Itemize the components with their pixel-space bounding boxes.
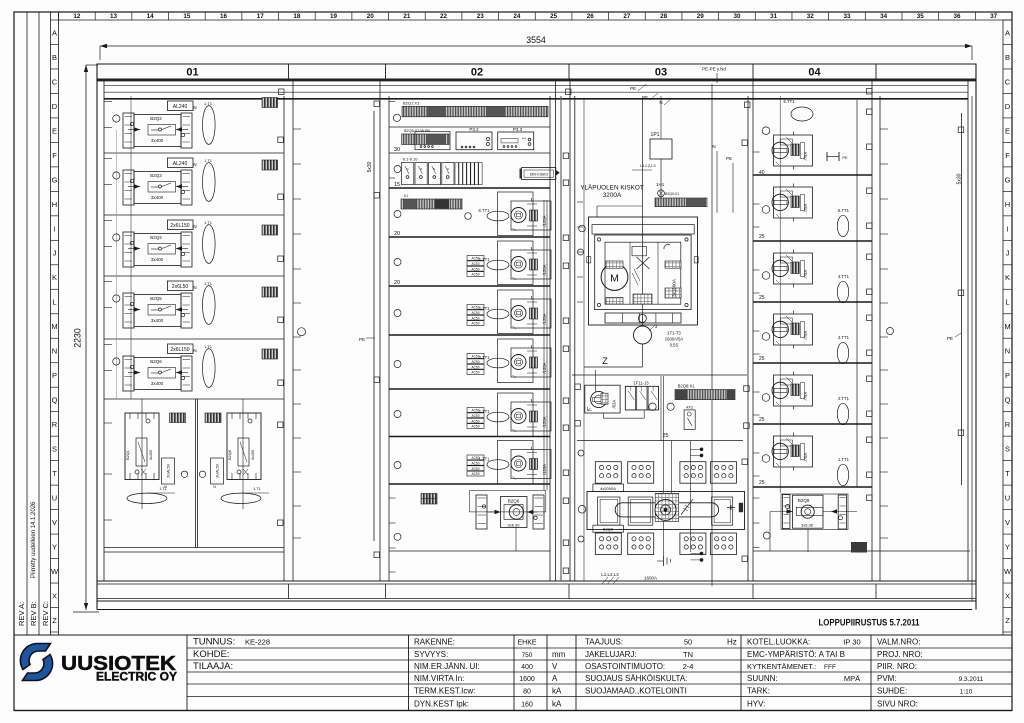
svg-text:3554: 3554 xyxy=(526,35,546,45)
svg-text:1.TT1: 1.TT1 xyxy=(479,457,491,462)
svg-text:DYN.KEST Ipk:: DYN.KEST Ipk: xyxy=(414,700,469,709)
svg-text:04: 04 xyxy=(808,67,821,79)
svg-text:PE: PE xyxy=(642,95,648,100)
svg-text:TN: TN xyxy=(683,650,693,659)
svg-text:37: 37 xyxy=(990,13,998,20)
svg-text:4x2000A: 4x2000A xyxy=(600,486,616,491)
svg-text:6.1-6.10: 6.1-6.10 xyxy=(403,157,418,162)
svg-text:B2Q2: B2Q2 xyxy=(150,116,162,121)
svg-text:1H1: 1H1 xyxy=(656,182,665,187)
svg-text:34: 34 xyxy=(880,13,888,20)
svg-text:N: N xyxy=(1005,347,1010,356)
svg-text:K1: K1 xyxy=(404,194,408,198)
svg-text:31: 31 xyxy=(770,13,778,20)
svg-text:E: E xyxy=(1005,126,1010,135)
svg-text:B2Q9: B2Q9 xyxy=(798,498,810,503)
svg-text:B2Q8:X1: B2Q8:X1 xyxy=(678,384,696,389)
svg-text:3x400: 3x400 xyxy=(151,318,164,323)
svg-text:P3.2: P3.2 xyxy=(469,127,479,132)
svg-text:V: V xyxy=(52,518,57,527)
svg-text:mm: mm xyxy=(552,650,566,659)
svg-text:EMC-YMPÄRISTÖ: A TAI B: EMC-YMPÄRISTÖ: A TAI B xyxy=(747,650,845,659)
svg-text:TILAAJA:: TILAAJA: xyxy=(193,661,233,672)
svg-text:I: I xyxy=(1006,224,1008,233)
svg-text:AL240: AL240 xyxy=(173,104,188,110)
svg-text:27: 27 xyxy=(623,13,631,20)
svg-text:Y: Y xyxy=(52,543,57,552)
svg-text:H: H xyxy=(1005,200,1010,209)
svg-text:AC50: AC50 xyxy=(472,316,480,320)
svg-text:25: 25 xyxy=(759,234,765,240)
svg-text:G: G xyxy=(1005,175,1011,184)
svg-text:L1,L2,L3: L1,L2,L3 xyxy=(601,572,619,577)
svg-text:SUUNN:: SUUNN: xyxy=(747,674,778,683)
svg-text:6.TT1: 6.TT1 xyxy=(784,99,796,104)
svg-text:HYV:: HYV: xyxy=(747,700,765,709)
svg-text:TARK:: TARK: xyxy=(747,686,770,695)
svg-text:1:10: 1:10 xyxy=(960,688,973,695)
svg-text:B2Q6: B2Q6 xyxy=(150,359,162,364)
svg-text:P3.3: P3.3 xyxy=(513,127,523,132)
svg-text:25: 25 xyxy=(759,295,765,301)
svg-text:C: C xyxy=(1005,77,1011,86)
svg-text:2-4: 2-4 xyxy=(683,662,694,671)
svg-text:12: 12 xyxy=(73,13,81,20)
svg-text:P: P xyxy=(52,371,57,380)
svg-text:22: 22 xyxy=(440,13,448,20)
svg-text:AC50: AC50 xyxy=(472,311,480,315)
svg-text:400: 400 xyxy=(521,664,533,671)
svg-text:A: A xyxy=(552,674,558,683)
svg-text:SIVU NRO:: SIVU NRO: xyxy=(877,700,918,709)
svg-text:1F11-13: 1F11-13 xyxy=(633,381,649,386)
svg-text:23: 23 xyxy=(477,13,485,20)
svg-text:3x400: 3x400 xyxy=(251,450,255,460)
svg-text:A: A xyxy=(1005,28,1010,37)
svg-text:24: 24 xyxy=(513,13,521,20)
svg-text:B2Q8: B2Q8 xyxy=(603,527,614,532)
svg-text:PE: PE xyxy=(726,156,732,161)
svg-text:TERM.KEST.Icw:: TERM.KEST.Icw: xyxy=(414,686,475,695)
svg-text:V: V xyxy=(1005,518,1010,527)
svg-text:I: I xyxy=(53,224,55,233)
svg-text:JAKELUJARJ:: JAKELUJARJ: xyxy=(585,650,637,659)
svg-text:PE: PE xyxy=(630,86,636,91)
svg-text:Piirretty uudelleen 14.1.2026: Piirretty uudelleen 14.1.2026 xyxy=(31,501,37,578)
svg-text:N: N xyxy=(193,224,196,229)
svg-text:4.TT1: 4.TT1 xyxy=(479,306,491,311)
svg-text:/125A: /125A xyxy=(542,362,547,373)
svg-text:3x400: 3x400 xyxy=(151,138,164,143)
svg-text:AC50: AC50 xyxy=(472,472,480,476)
svg-text:E: E xyxy=(52,126,57,135)
svg-text:FFF: FFF xyxy=(824,664,836,671)
svg-text:Z: Z xyxy=(1005,616,1010,625)
svg-text:3x1600A: 3x1600A xyxy=(672,279,677,297)
svg-text:/75A: /75A xyxy=(803,330,808,339)
svg-text:1.T1: 1.T1 xyxy=(204,220,213,225)
svg-text:2x6L150: 2x6L150 xyxy=(170,347,189,353)
svg-text:P: P xyxy=(1005,371,1010,380)
svg-text:2x6L150: 2x6L150 xyxy=(170,223,189,229)
svg-text:AL240: AL240 xyxy=(173,161,188,167)
svg-text:33: 33 xyxy=(843,13,851,20)
svg-text:C: C xyxy=(52,77,58,86)
svg-text:N: N xyxy=(52,347,57,356)
svg-text:/63A: /63A xyxy=(612,399,617,408)
svg-text:S: S xyxy=(1005,445,1010,454)
svg-text:2.TT1: 2.TT1 xyxy=(838,396,850,401)
svg-text:N: N xyxy=(193,105,196,110)
svg-text:4X1: 4X1 xyxy=(686,405,694,410)
svg-text:L: L xyxy=(1005,298,1009,307)
svg-text:PIIR. NRO:: PIIR. NRO: xyxy=(877,662,917,671)
svg-text:N: N xyxy=(712,144,715,149)
svg-text:40: 40 xyxy=(759,170,765,176)
svg-text:750: 750 xyxy=(522,652,533,659)
svg-text:16: 16 xyxy=(220,13,228,20)
svg-text:13: 13 xyxy=(110,13,118,20)
svg-text:kA: kA xyxy=(552,686,562,695)
svg-text:B2Q5: B2Q5 xyxy=(150,296,162,301)
svg-text:R: R xyxy=(1005,420,1011,429)
svg-text:1.T1: 1.T1 xyxy=(159,487,167,491)
svg-text:LOPPUPIIRUSTUS 5.7.2011: LOPPUPIIRUSTUS 5.7.2011 xyxy=(819,618,921,629)
svg-text:YLÄPUOLEN KISKOT: YLÄPUOLEN KISKOT xyxy=(580,184,644,192)
svg-text:30: 30 xyxy=(394,147,400,153)
svg-text:30: 30 xyxy=(733,13,741,20)
svg-text:D: D xyxy=(1005,102,1011,111)
svg-text:4.TT1: 4.TT1 xyxy=(838,274,850,279)
svg-text:18: 18 xyxy=(293,13,301,20)
svg-text:/75A: /75A xyxy=(803,151,808,160)
svg-text:/75A: /75A xyxy=(803,452,808,461)
svg-text:160: 160 xyxy=(521,702,533,709)
svg-text:B2Q1:X1: B2Q1:X1 xyxy=(403,101,420,106)
svg-text:X: X xyxy=(52,591,57,600)
svg-text:35: 35 xyxy=(917,13,925,20)
svg-text:80: 80 xyxy=(523,688,531,695)
svg-text:3.TT1: 3.TT1 xyxy=(838,335,850,340)
svg-text:1600A: 1600A xyxy=(644,576,657,581)
svg-text:DIN-KISKO: DIN-KISKO xyxy=(530,173,549,177)
svg-text:1P1: 1P1 xyxy=(651,132,660,138)
svg-text:26: 26 xyxy=(587,13,595,20)
svg-text:5x30: 5x30 xyxy=(957,173,963,184)
svg-text:PE: PE xyxy=(359,337,365,342)
svg-text:REV C:: REV C: xyxy=(41,601,50,626)
svg-text:TUNNUS:: TUNNUS: xyxy=(193,637,235,648)
svg-text:3x400: 3x400 xyxy=(149,450,153,460)
svg-text:PROJ. NRO:: PROJ. NRO: xyxy=(877,650,923,659)
svg-text:1.T1: 1.T1 xyxy=(204,344,213,349)
svg-text:AC50: AC50 xyxy=(472,467,480,471)
svg-text:SUHDE:: SUHDE: xyxy=(877,686,907,695)
svg-text:K: K xyxy=(1005,273,1010,282)
svg-text:21: 21 xyxy=(403,13,411,20)
svg-text:25: 25 xyxy=(759,417,765,423)
svg-text:AC50: AC50 xyxy=(472,360,480,364)
svg-text:Y: Y xyxy=(1005,543,1010,552)
svg-text:B2Q4: B2Q4 xyxy=(150,235,162,240)
svg-text:AC50: AC50 xyxy=(472,262,480,266)
svg-text:Z: Z xyxy=(52,616,57,625)
svg-text:20: 20 xyxy=(394,231,400,237)
svg-text:5.TT1: 5.TT1 xyxy=(479,257,491,262)
svg-text:Q: Q xyxy=(1005,396,1011,405)
svg-text:KYTKENTÄMENET.:: KYTKENTÄMENET.: xyxy=(747,662,816,671)
svg-text:u: u xyxy=(433,167,435,171)
svg-text:A: A xyxy=(52,28,57,37)
svg-text:20: 20 xyxy=(394,280,400,286)
svg-text:PVM:: PVM: xyxy=(877,674,897,683)
svg-text:M: M xyxy=(51,322,57,331)
svg-text:B2Q8: B2Q8 xyxy=(228,450,232,460)
svg-text:15: 15 xyxy=(183,13,191,20)
svg-text:2UAL50: 2UAL50 xyxy=(167,464,171,478)
svg-text:/75A: /75A xyxy=(803,269,808,278)
svg-text:3200A: 3200A xyxy=(603,192,622,199)
svg-text:15: 15 xyxy=(394,182,400,188)
svg-text:2UAL50: 2UAL50 xyxy=(216,464,220,478)
svg-text:X: X xyxy=(1005,591,1010,600)
svg-text:5.TT1: 5.TT1 xyxy=(838,208,850,213)
svg-text:25: 25 xyxy=(759,480,765,486)
svg-text:1.T1: 1.T1 xyxy=(204,101,213,106)
svg-text:u: u xyxy=(420,167,422,171)
svg-text:V: V xyxy=(552,662,558,671)
svg-text:5x30: 5x30 xyxy=(367,161,373,172)
svg-text:1.T1: 1.T1 xyxy=(253,487,261,491)
svg-text:S: S xyxy=(52,445,57,454)
svg-text:B2Q0:X1: B2Q0:X1 xyxy=(665,192,679,196)
svg-text:1.T1: 1.T1 xyxy=(204,158,213,163)
svg-text:3x400: 3x400 xyxy=(151,257,164,262)
svg-text:TAAJUUS:: TAAJUUS: xyxy=(585,638,623,647)
svg-text:K: K xyxy=(52,273,57,282)
svg-text:1.TT1: 1.TT1 xyxy=(838,457,850,462)
svg-text:VALM.NRO:: VALM.NRO: xyxy=(877,638,920,647)
svg-text:kA: kA xyxy=(552,700,562,709)
svg-text:/75A: /75A xyxy=(803,203,808,212)
svg-text:F: F xyxy=(52,151,57,160)
svg-text:29: 29 xyxy=(697,13,705,20)
svg-text:u: u xyxy=(407,167,409,171)
svg-text:/125A: /125A xyxy=(542,464,547,475)
svg-text:/75A: /75A xyxy=(803,391,808,400)
svg-text:50: 50 xyxy=(684,638,692,647)
svg-text:3x400: 3x400 xyxy=(151,195,164,200)
svg-text:B2Q6: B2Q6 xyxy=(508,499,520,504)
svg-text:Q: Q xyxy=(52,396,58,405)
svg-text:1T1-T3: 1T1-T3 xyxy=(667,331,681,336)
svg-text:14: 14 xyxy=(147,13,155,20)
svg-text:25: 25 xyxy=(550,13,558,20)
svg-text:1600A/5A: 1600A/5A xyxy=(665,337,684,342)
svg-text:H: H xyxy=(52,200,57,209)
svg-text:G: G xyxy=(52,175,58,184)
svg-text:J: J xyxy=(1006,249,1010,258)
svg-text:ELECTRIC OY: ELECTRIC OY xyxy=(96,672,177,684)
svg-text:IP 30: IP 30 xyxy=(843,638,860,647)
svg-text:3.TT1: 3.TT1 xyxy=(479,355,491,360)
svg-text:17: 17 xyxy=(257,13,265,20)
svg-text:AC50: AC50 xyxy=(472,461,480,465)
svg-text:u: u xyxy=(447,167,449,171)
svg-text:AC50: AC50 xyxy=(472,425,480,429)
svg-text:AC50: AC50 xyxy=(472,371,480,375)
svg-text:20: 20 xyxy=(367,13,375,20)
svg-text:AC50: AC50 xyxy=(472,322,480,326)
svg-text:B: B xyxy=(52,53,57,62)
svg-text:W: W xyxy=(51,567,59,576)
svg-text:M: M xyxy=(610,273,619,285)
svg-text:SUOJAUS SÄHKÖISKULTA:: SUOJAUS SÄHKÖISKULTA: xyxy=(585,674,687,683)
svg-text:PE: PE xyxy=(842,155,848,160)
svg-text:2230: 2230 xyxy=(73,328,83,348)
svg-text:AC50: AC50 xyxy=(472,414,480,418)
svg-text:NIM.VIRTA In:: NIM.VIRTA In: xyxy=(414,674,464,683)
svg-text:01: 01 xyxy=(186,67,198,79)
svg-text:M: M xyxy=(1004,322,1010,331)
svg-text:/125A: /125A xyxy=(542,416,547,427)
svg-text:Z: Z xyxy=(602,356,608,366)
svg-text:/125A: /125A xyxy=(542,215,547,226)
svg-text:PE-PE y.Nd: PE-PE y.Nd xyxy=(702,67,726,72)
svg-text:N: N xyxy=(193,285,196,290)
svg-text:KOHDE:: KOHDE: xyxy=(193,649,229,660)
svg-text:D: D xyxy=(52,102,58,111)
svg-text:R: R xyxy=(52,420,58,429)
svg-text:3x6.30: 3x6.30 xyxy=(507,523,520,528)
svg-text:2.TT1: 2.TT1 xyxy=(479,409,491,414)
svg-text:AC50: AC50 xyxy=(472,267,480,271)
svg-text:02: 02 xyxy=(471,67,483,79)
svg-text:36: 36 xyxy=(953,13,961,20)
svg-text:/125A: /125A xyxy=(542,313,547,324)
svg-text:1600: 1600 xyxy=(519,676,535,683)
svg-text:28: 28 xyxy=(660,13,668,20)
svg-text:REV A:: REV A: xyxy=(17,602,26,626)
svg-text:J: J xyxy=(53,249,57,258)
svg-text:32: 32 xyxy=(807,13,815,20)
svg-text:N: N xyxy=(193,348,196,353)
svg-text:3x400: 3x400 xyxy=(151,381,164,386)
svg-text:***: *** xyxy=(522,137,527,141)
svg-text:OSASTOINTIMUOTO:: OSASTOINTIMUOTO: xyxy=(585,662,665,671)
svg-text:B: B xyxy=(1005,53,1010,62)
svg-text:/125A: /125A xyxy=(542,264,547,275)
svg-text:NIM.ER.JÄNN. UI:: NIM.ER.JÄNN. UI: xyxy=(414,662,480,671)
svg-text:N: N xyxy=(193,162,196,167)
svg-text:1.T1: 1.T1 xyxy=(204,281,213,286)
svg-text:SUOJAMAAD.,KOTELOINTI: SUOJAMAAD.,KOTELOINTI xyxy=(585,686,687,695)
svg-text:AC50: AC50 xyxy=(472,419,480,423)
svg-text:03: 03 xyxy=(655,67,667,79)
svg-text:F: F xyxy=(1005,151,1010,160)
svg-text:T: T xyxy=(52,469,57,478)
svg-text:9.3.2011: 9.3.2011 xyxy=(959,676,984,683)
svg-text:U: U xyxy=(52,494,57,503)
svg-text:25: 25 xyxy=(759,356,765,362)
svg-text:SYVYYS:: SYVYYS: xyxy=(414,650,448,659)
svg-text:MPÄ: MPÄ xyxy=(844,674,860,683)
svg-text:PE: PE xyxy=(947,336,953,341)
svg-text:3x6.36: 3x6.36 xyxy=(801,523,814,528)
svg-text:RAKENNE:: RAKENNE: xyxy=(414,638,455,647)
svg-text:19: 19 xyxy=(330,13,338,20)
svg-text:B2Q1: B2Q1 xyxy=(126,450,130,460)
svg-text:L: L xyxy=(52,298,56,307)
svg-text:0.5S: 0.5S xyxy=(670,343,679,348)
svg-text:Hz: Hz xyxy=(727,638,737,647)
svg-text:KOTEL.LUOKKA:: KOTEL.LUOKKA: xyxy=(747,638,810,647)
svg-text:B2Q6:X2:W.PN: B2Q6:X2:W.PN xyxy=(404,129,430,133)
svg-text:KE-228: KE-228 xyxy=(245,638,270,647)
svg-text:W: W xyxy=(1004,567,1012,576)
svg-text:B2Q3: B2Q3 xyxy=(150,173,162,178)
svg-text:U: U xyxy=(1005,494,1010,503)
svg-text:T: T xyxy=(1005,469,1010,478)
svg-text:2x6L50: 2x6L50 xyxy=(172,284,189,290)
svg-text:EHKE: EHKE xyxy=(517,640,536,647)
svg-text:REV B:: REV B: xyxy=(29,601,38,626)
svg-text:AC50: AC50 xyxy=(472,365,480,369)
svg-text:6.TT1: 6.TT1 xyxy=(479,208,491,213)
svg-text:AC50: AC50 xyxy=(472,273,480,277)
